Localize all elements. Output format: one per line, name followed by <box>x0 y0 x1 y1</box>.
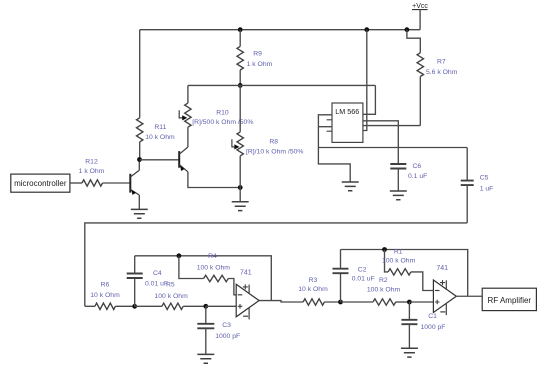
ground C1 <box>401 348 418 357</box>
svg-text:R7: R7 <box>437 58 446 65</box>
microcontroller box <box>11 174 70 192</box>
resistor R2 <box>341 301 374 303</box>
capacitor C5 <box>466 148 468 181</box>
svg-text:R4: R4 <box>208 253 217 260</box>
resistor R3 <box>303 299 324 305</box>
capacitor C2 <box>340 273 342 302</box>
IC U1 LM 566 <box>332 103 363 142</box>
wire to op-amp U2 plus input <box>206 305 236 307</box>
svg-text:741: 741 <box>240 269 252 276</box>
potentiometer R10 <box>187 85 189 103</box>
svg-text:10 k Ohm: 10 k Ohm <box>90 292 120 299</box>
wire stage1 feedback top <box>135 256 272 301</box>
wire top Vcc rail <box>140 29 420 31</box>
junction dot node R5-C3 <box>203 304 208 309</box>
resistor R9 <box>239 30 241 47</box>
resistor R5 <box>135 305 162 307</box>
svg-text:R3: R3 <box>309 277 318 284</box>
svg-text:RF Amplifier: RF Amplifier <box>488 296 532 305</box>
svg-text:+Vcc: +Vcc <box>412 3 428 10</box>
resistor R12 <box>82 180 103 186</box>
svg-text:100 k Ohm: 100 k Ohm <box>382 258 416 265</box>
ground LM566 <box>342 182 359 191</box>
svg-text:10 k Ohm: 10 k Ohm <box>145 134 175 141</box>
transistor Q2 <box>178 151 180 168</box>
wire node A to Q2 base <box>140 159 179 161</box>
svg-text:C6: C6 <box>413 163 422 170</box>
svg-text:R10: R10 <box>216 109 229 116</box>
svg-text:[R]/10 k Ohm /50%: [R]/10 k Ohm /50% <box>246 148 303 155</box>
junction dot node R3-C2-R2 <box>338 300 343 305</box>
wire rail to LM566 pin8 <box>363 30 367 131</box>
wire Q1 collector <box>138 160 140 171</box>
svg-text:R9: R9 <box>253 51 262 58</box>
svg-text:0.1 uF: 0.1 uF <box>408 173 427 180</box>
svg-text:C1: C1 <box>428 313 437 320</box>
junction dot node R7-rail <box>405 27 410 32</box>
svg-text:R12: R12 <box>85 158 98 165</box>
resistor R1 <box>385 250 389 272</box>
svg-text:R8: R8 <box>269 139 278 146</box>
wire LM566 left pins to ground <box>318 115 350 182</box>
op-amp U3 741 (stage 2) <box>433 280 456 313</box>
junction dot node R2-C1 <box>407 300 412 305</box>
svg-text:microcontroller: microcontroller <box>14 179 67 188</box>
resistor R7 <box>407 30 420 53</box>
wire output bus (LM566 to C5) <box>318 147 467 149</box>
svg-text:1 uF: 1 uF <box>480 186 494 193</box>
junction dot node LM566-rail <box>364 27 369 32</box>
svg-text:R6: R6 <box>101 281 110 288</box>
junction dot node R9-R8 <box>238 83 243 88</box>
capacitor C1 <box>408 302 410 320</box>
wire microcontroller to R12 <box>70 182 82 184</box>
wire LM566 pin to C6 node <box>363 121 398 164</box>
wire ground stem node B <box>239 188 241 202</box>
resistor R4 <box>179 256 204 279</box>
wire R10-rail to LM566 pin <box>363 85 376 114</box>
svg-text:0.01 uF: 0.01 uF <box>352 276 375 283</box>
ground C6 <box>390 191 407 200</box>
svg-text:C2: C2 <box>358 267 367 274</box>
wire op-amp U3 output <box>456 295 482 297</box>
pin stub LM566 left lower <box>327 130 332 132</box>
svg-text:1000 pF: 1000 pF <box>215 333 240 340</box>
resistor R6 <box>85 305 95 307</box>
transistor Q1 <box>129 174 131 193</box>
op-amp U2 741 (stage 1) <box>236 284 259 317</box>
capacitor C4 <box>134 278 136 306</box>
svg-text:R5: R5 <box>166 281 175 288</box>
svg-text:100 k Ohm: 100 k Ohm <box>155 293 189 300</box>
RF Amplifier box <box>482 288 536 310</box>
junction dot node A (Q1 collector / R11 / Q2 base) <box>137 157 142 162</box>
svg-text:R1: R1 <box>394 248 403 255</box>
svg-text:100 k Ohm: 100 k Ohm <box>197 265 231 272</box>
svg-text:C4: C4 <box>153 270 162 277</box>
capacitor C3 <box>205 306 207 324</box>
svg-text:5.6 k Ohm: 5.6 k Ohm <box>426 69 458 76</box>
svg-text:741: 741 <box>436 265 448 272</box>
svg-text:LM 566: LM 566 <box>335 107 359 116</box>
svg-text:1000 pF: 1000 pF <box>421 324 446 331</box>
wire C5 to filter input <box>85 223 467 306</box>
svg-text:[R]/500 k Ohm /50%: [R]/500 k Ohm /50% <box>192 119 253 126</box>
svg-text:R2: R2 <box>379 277 388 284</box>
junction dot node B (Q2 emitter / R8 bottom) <box>238 185 243 190</box>
svg-text:1 k Ohm: 1 k Ohm <box>247 61 273 68</box>
svg-text:C5: C5 <box>480 175 489 182</box>
junction dot node C4-R6-R5 <box>132 304 137 309</box>
junction dot node R9-rail <box>238 27 243 32</box>
potentiometer R8 <box>239 85 241 131</box>
junction dot stage1 top node <box>177 253 182 258</box>
svg-text:C3: C3 <box>222 322 231 329</box>
wire Q2 emitter to ground node <box>188 172 240 188</box>
svg-text:10 k Ohm: 10 k Ohm <box>298 286 328 293</box>
svg-text:1 k Ohm: 1 k Ohm <box>79 168 105 175</box>
wire op-amp U2 output <box>259 301 303 302</box>
ground C3 <box>197 354 214 363</box>
wire to op-amp U3 plus input <box>409 301 433 303</box>
pin stub LM566 left upper <box>327 119 332 121</box>
svg-text:100 k Ohm: 100 k Ohm <box>367 286 401 293</box>
wire LM566 pin to R7 bottom <box>363 125 420 127</box>
ground Q1 emitter <box>131 209 148 218</box>
junction dot stage2 top node <box>382 247 387 252</box>
ground node B <box>232 202 249 211</box>
svg-text:0.01 uF: 0.01 uF <box>145 281 168 288</box>
capacitor C6 <box>390 164 406 169</box>
wire stage2 feedback top <box>341 250 468 297</box>
resistor R11 <box>139 30 141 118</box>
wire Q1 emitter <box>138 195 140 209</box>
wire R10 top rail to LM566 <box>188 84 376 86</box>
svg-text:R11: R11 <box>154 124 166 131</box>
wire LM566 left pin lower <box>318 126 332 128</box>
